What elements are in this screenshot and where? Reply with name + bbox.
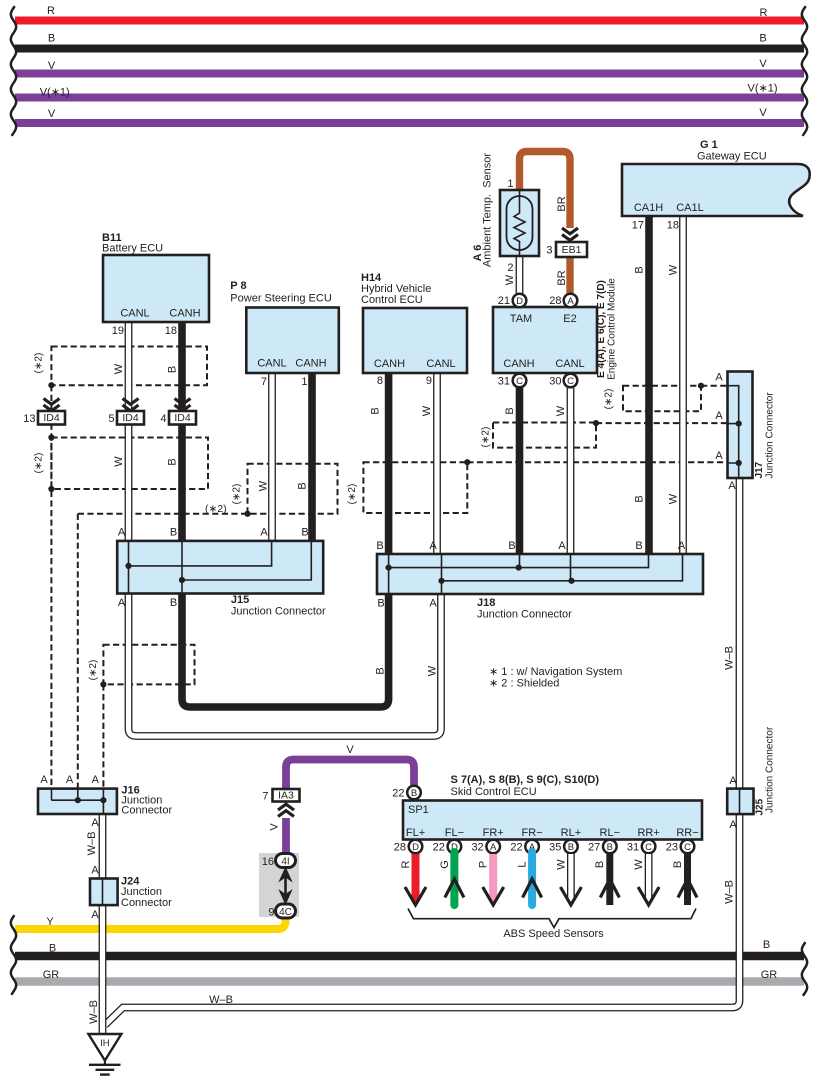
svg-text:BR: BR xyxy=(556,196,568,211)
svg-text:Connector: Connector xyxy=(121,897,172,909)
svg-text:31: 31 xyxy=(627,842,639,854)
svg-text:9: 9 xyxy=(268,907,274,919)
svg-text:B: B xyxy=(296,482,308,489)
svg-text:B: B xyxy=(49,943,56,955)
svg-text:IA3: IA3 xyxy=(278,790,294,802)
svg-text:27: 27 xyxy=(588,842,600,854)
svg-text:ID4: ID4 xyxy=(43,412,60,424)
svg-text:A: A xyxy=(91,909,99,921)
svg-text:35: 35 xyxy=(549,842,561,854)
svg-text:28: 28 xyxy=(549,295,561,307)
svg-text:FR−: FR− xyxy=(522,827,543,839)
svg-text:5: 5 xyxy=(108,413,114,425)
svg-text:P 8: P 8 xyxy=(230,280,246,292)
svg-text:22: 22 xyxy=(392,788,404,800)
svg-text:Gateway ECU: Gateway ECU xyxy=(697,151,767,163)
svg-text:19: 19 xyxy=(112,325,124,337)
svg-text:W: W xyxy=(113,456,125,467)
svg-text:W: W xyxy=(555,405,567,416)
svg-text:Skid Control ECU: Skid Control ECU xyxy=(451,786,537,798)
svg-text:P: P xyxy=(478,861,490,868)
svg-text:CANH: CANH xyxy=(295,358,326,370)
svg-text:V: V xyxy=(268,823,280,831)
svg-text:A: A xyxy=(729,775,737,787)
svg-text:TAM: TAM xyxy=(510,313,532,325)
svg-text:Connector: Connector xyxy=(121,805,172,817)
svg-text:B: B xyxy=(635,540,642,552)
svg-text:A: A xyxy=(715,450,723,462)
svg-text:A: A xyxy=(118,597,126,609)
svg-text:(∗2): (∗2) xyxy=(34,353,45,374)
svg-text:A: A xyxy=(490,842,497,853)
svg-text:Control ECU: Control ECU xyxy=(361,294,423,306)
svg-text:W: W xyxy=(113,363,125,374)
svg-text:B: B xyxy=(377,598,384,610)
svg-text:W–B: W–B xyxy=(209,994,233,1006)
svg-text:18: 18 xyxy=(165,325,177,337)
svg-text:CANL: CANL xyxy=(555,358,584,370)
svg-text:ABS Speed Sensors: ABS Speed Sensors xyxy=(503,928,604,940)
svg-text:V(∗1): V(∗1) xyxy=(748,82,778,94)
svg-text:(∗2): (∗2) xyxy=(604,389,615,410)
svg-text:RL−: RL− xyxy=(600,827,621,839)
svg-text:CANH: CANH xyxy=(503,358,534,370)
svg-text:21: 21 xyxy=(498,295,510,307)
svg-text:A: A xyxy=(260,527,268,539)
svg-text:A: A xyxy=(66,774,74,786)
svg-text:RL+: RL+ xyxy=(561,827,582,839)
svg-text:B: B xyxy=(170,597,177,609)
svg-text:C: C xyxy=(684,842,691,853)
svg-text:1: 1 xyxy=(507,178,513,190)
svg-text:B: B xyxy=(568,842,574,853)
svg-text:CANL: CANL xyxy=(257,358,286,370)
svg-text:GR: GR xyxy=(761,969,778,981)
svg-text:CANH: CANH xyxy=(169,308,200,320)
svg-text:22: 22 xyxy=(433,842,445,854)
svg-text:GR: GR xyxy=(43,969,60,981)
svg-text:G: G xyxy=(439,860,451,869)
svg-text:Power Steering ECU: Power Steering ECU xyxy=(230,293,332,305)
svg-text:W: W xyxy=(504,274,516,285)
svg-text:E2: E2 xyxy=(563,313,576,325)
svg-text:G 1: G 1 xyxy=(700,139,718,151)
svg-text:J15: J15 xyxy=(231,594,249,606)
svg-text:B: B xyxy=(301,527,308,539)
svg-text:W–B: W–B xyxy=(723,880,735,904)
svg-text:R: R xyxy=(47,5,55,17)
svg-text:7: 7 xyxy=(261,376,267,388)
svg-text:4: 4 xyxy=(160,413,166,425)
svg-text:D: D xyxy=(412,842,419,853)
svg-text:A: A xyxy=(91,817,99,829)
svg-text:W: W xyxy=(257,480,269,491)
svg-text:A: A xyxy=(715,410,723,422)
svg-text:B: B xyxy=(759,33,766,45)
svg-text:Junction Connector: Junction Connector xyxy=(477,609,572,621)
svg-text:D: D xyxy=(516,296,523,307)
svg-text:W–B: W–B xyxy=(723,646,735,670)
svg-text:(∗2): (∗2) xyxy=(34,453,45,474)
svg-text:32: 32 xyxy=(471,842,483,854)
svg-text:RR−: RR− xyxy=(676,827,698,839)
svg-text:28: 28 xyxy=(394,842,406,854)
svg-text:B: B xyxy=(374,667,386,674)
svg-text:S 7(A), S 8(B), S 9(C), S10(D): S 7(A), S 8(B), S 9(C), S10(D) xyxy=(451,774,600,786)
svg-text:ID4: ID4 xyxy=(174,412,191,424)
svg-text:W–B: W–B xyxy=(86,832,98,856)
svg-text:L: L xyxy=(517,861,529,867)
svg-text:B: B xyxy=(48,33,55,45)
svg-text:J18: J18 xyxy=(477,597,495,609)
svg-text:CA1L: CA1L xyxy=(676,202,704,214)
svg-text:BR: BR xyxy=(556,270,568,285)
svg-text:Junction Connector: Junction Connector xyxy=(231,606,326,618)
svg-text:13: 13 xyxy=(23,413,35,425)
svg-text:C: C xyxy=(645,842,652,853)
svg-text:B: B xyxy=(594,861,606,868)
svg-text:B: B xyxy=(411,788,417,799)
svg-text:J17: J17 xyxy=(754,461,765,478)
svg-text:A: A xyxy=(678,540,686,552)
svg-text:A: A xyxy=(91,865,99,877)
svg-text:1: 1 xyxy=(301,376,307,388)
svg-text:W: W xyxy=(633,859,645,870)
svg-text:C: C xyxy=(567,376,574,387)
svg-text:∗ 1 : w/ Navigation System: ∗ 1 : w/ Navigation System xyxy=(489,666,622,678)
svg-text:B: B xyxy=(504,407,516,414)
svg-text:23: 23 xyxy=(666,842,678,854)
svg-text:A: A xyxy=(558,540,566,552)
svg-text:A: A xyxy=(567,296,574,307)
svg-text:A: A xyxy=(429,598,437,610)
svg-text:W: W xyxy=(667,493,679,504)
svg-text:B: B xyxy=(166,458,178,465)
svg-text:ID4: ID4 xyxy=(122,412,139,424)
svg-text:(∗2): (∗2) xyxy=(205,503,227,515)
svg-text:7: 7 xyxy=(262,791,268,803)
svg-text:22: 22 xyxy=(510,842,522,854)
svg-text:30: 30 xyxy=(549,376,561,388)
svg-text:B: B xyxy=(170,527,177,539)
svg-text:31: 31 xyxy=(498,376,510,388)
svg-text:RR+: RR+ xyxy=(637,827,659,839)
svg-text:B: B xyxy=(607,842,613,853)
svg-text:A: A xyxy=(715,372,723,384)
svg-text:V: V xyxy=(759,107,767,119)
svg-text:4I: 4I xyxy=(281,856,289,867)
svg-text:∗ 2 : Shielded: ∗ 2 : Shielded xyxy=(489,678,559,690)
svg-text:Battery ECU: Battery ECU xyxy=(102,243,163,255)
svg-text:B: B xyxy=(508,540,515,552)
svg-text:V: V xyxy=(48,108,56,120)
svg-text:FR+: FR+ xyxy=(483,827,504,839)
svg-text:17: 17 xyxy=(632,220,644,232)
svg-text:B: B xyxy=(166,366,178,373)
svg-text:E 4(A), E 6(C), E 7(D): E 4(A), E 6(C), E 7(D) xyxy=(596,280,607,378)
svg-text:4C: 4C xyxy=(279,907,292,918)
svg-text:W: W xyxy=(555,859,567,870)
svg-text:CANL: CANL xyxy=(426,358,455,370)
svg-text:V(∗1): V(∗1) xyxy=(40,87,70,99)
svg-text:B: B xyxy=(763,939,770,951)
svg-text:B: B xyxy=(369,407,381,414)
svg-text:A: A xyxy=(92,774,100,786)
svg-text:CANH: CANH xyxy=(374,358,405,370)
svg-text:W: W xyxy=(667,264,679,275)
svg-text:A: A xyxy=(729,819,737,831)
svg-text:(∗2): (∗2) xyxy=(88,660,99,681)
svg-text:C: C xyxy=(516,376,523,387)
svg-text:A: A xyxy=(40,774,48,786)
svg-text:B: B xyxy=(633,495,645,502)
svg-text:8: 8 xyxy=(377,375,383,387)
svg-text:Ambient Temp. Sensor: Ambient Temp. Sensor xyxy=(482,153,494,267)
svg-text:V: V xyxy=(759,58,767,70)
svg-text:V: V xyxy=(48,60,56,72)
svg-text:IH: IH xyxy=(100,1038,110,1049)
svg-text:16: 16 xyxy=(262,856,274,868)
svg-text:18: 18 xyxy=(667,220,679,232)
svg-text:Junction Connector: Junction Connector xyxy=(765,392,776,479)
svg-text:3: 3 xyxy=(546,245,552,257)
svg-text:R: R xyxy=(400,860,412,868)
svg-text:Engine Control Module: Engine Control Module xyxy=(607,278,618,380)
svg-text:A: A xyxy=(118,527,126,539)
svg-text:W–B: W–B xyxy=(88,1000,100,1024)
svg-text:9: 9 xyxy=(426,375,432,387)
svg-text:CA1H: CA1H xyxy=(634,202,663,214)
svg-text:FL+: FL+ xyxy=(406,827,425,839)
svg-text:A: A xyxy=(728,480,736,492)
svg-text:Junction Connector: Junction Connector xyxy=(765,726,776,813)
svg-text:V: V xyxy=(346,744,354,756)
svg-text:SP1: SP1 xyxy=(408,804,429,816)
svg-text:EB1: EB1 xyxy=(562,244,582,256)
svg-text:R: R xyxy=(760,7,768,19)
svg-text:CANL: CANL xyxy=(120,308,149,320)
svg-text:(∗2): (∗2) xyxy=(481,427,492,448)
svg-text:W: W xyxy=(426,665,438,676)
svg-text:(∗2): (∗2) xyxy=(347,484,358,505)
svg-text:Y: Y xyxy=(46,916,54,928)
svg-text:A: A xyxy=(429,540,437,552)
svg-text:B: B xyxy=(376,540,383,552)
svg-text:2: 2 xyxy=(507,262,513,274)
svg-text:W: W xyxy=(421,405,433,416)
svg-text:B: B xyxy=(633,266,645,273)
svg-text:(∗2): (∗2) xyxy=(232,484,243,505)
svg-text:FL−: FL− xyxy=(445,827,464,839)
svg-text:B: B xyxy=(672,861,684,868)
